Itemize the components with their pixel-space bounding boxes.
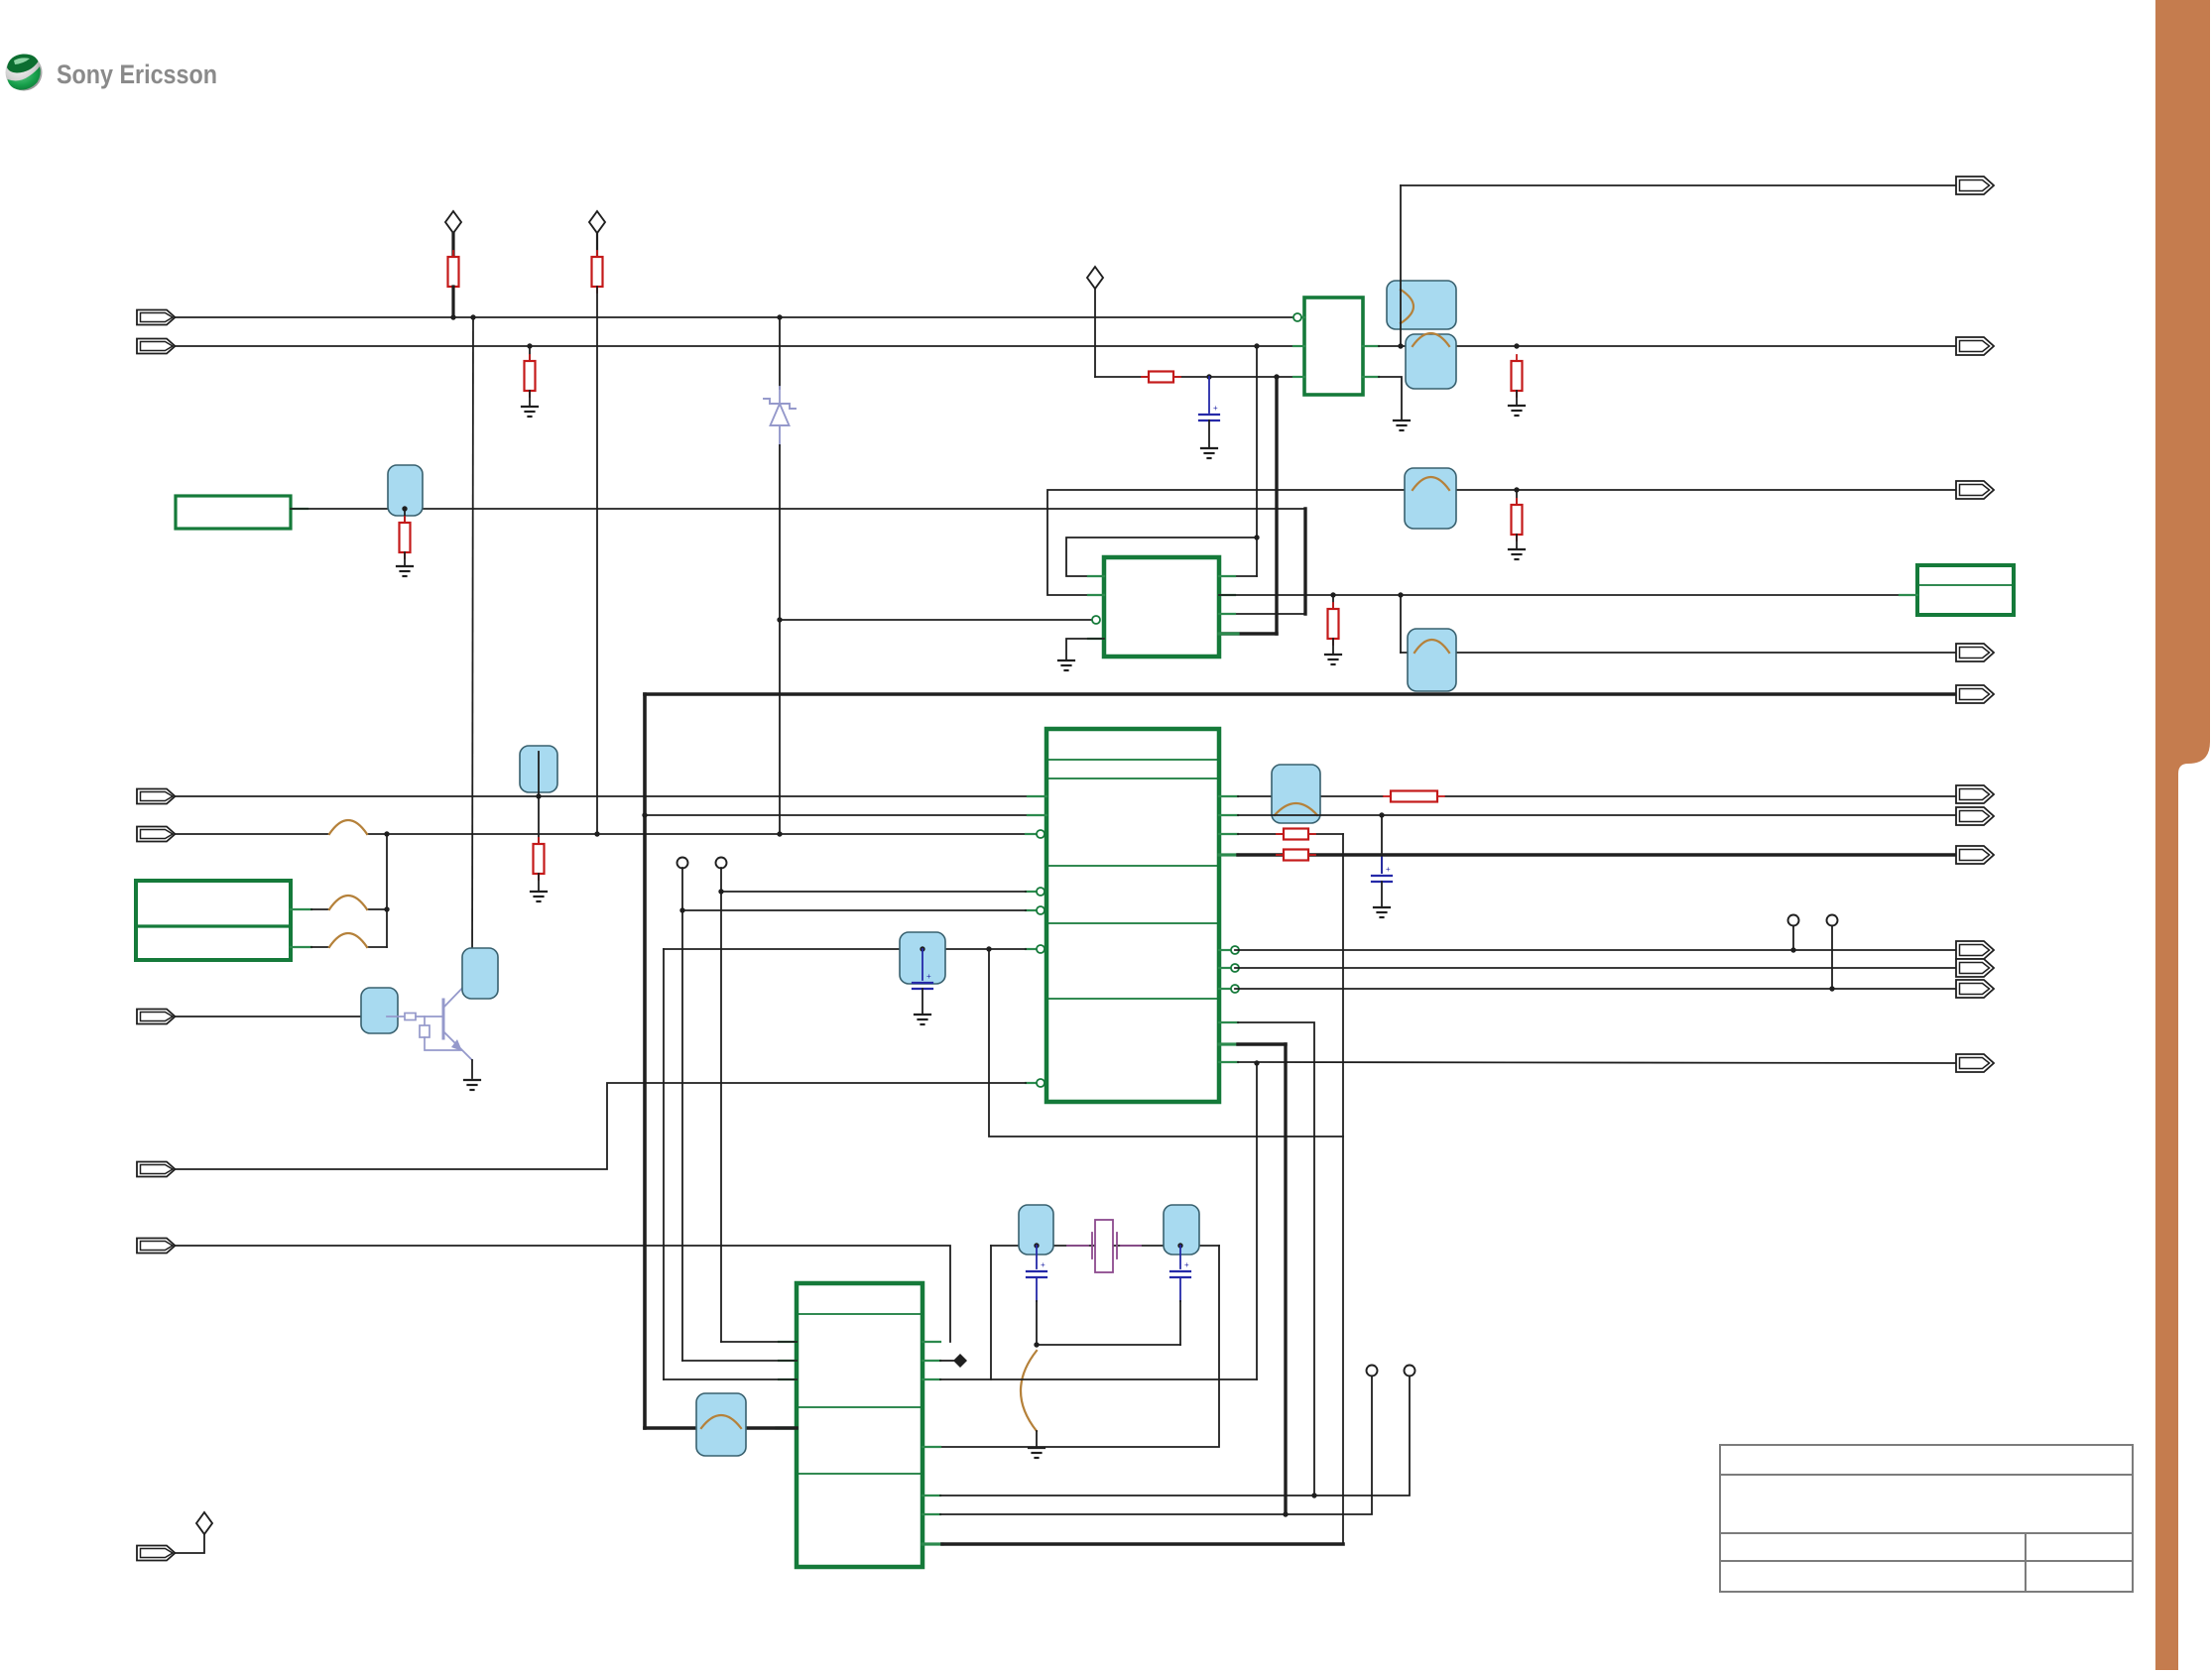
U3 section line d (1046, 922, 1219, 924)
ground C2 (1374, 907, 1390, 917)
node diamond D2 (589, 211, 605, 233)
junction H3 / vertical A (1254, 535, 1259, 539)
U2 left pin stubs (1088, 575, 1104, 577)
no-connect diamond U5.1372 (940, 1360, 953, 1362)
connector arrow IN5 (transistor input) (137, 1010, 176, 1024)
wire to U2 bubble (780, 619, 1092, 621)
wire U3.918 net (682, 909, 1026, 911)
wire cap bottom link (1037, 1344, 1180, 1346)
junction N2 pin1 (384, 906, 389, 911)
wire R9 gnd (538, 874, 540, 892)
test point TP4 (677, 858, 688, 869)
bead FB13 coil arc (701, 1415, 741, 1428)
resistor R14 (series) (1277, 850, 1315, 861)
bead FB3 coil arc (1413, 333, 1449, 346)
U3 right pin stubs (1219, 795, 1238, 797)
bead FB12 (1164, 1205, 1199, 1255)
bead FB4 coil arc (1413, 477, 1449, 490)
wire C3 stem (922, 949, 923, 980)
wire R6 gnd (1516, 391, 1518, 406)
wire U3.1031 out (1238, 1022, 1314, 1496)
resistor R6 (1512, 355, 1523, 397)
wire N2 vertical to W4 (386, 834, 388, 947)
junction 380/thick vertical (1274, 374, 1279, 379)
junction W4/box N2 net (384, 831, 389, 836)
ground U1.380 (1394, 420, 1410, 430)
wire thick rail 700 (645, 692, 1956, 696)
N2 pin1 wire (291, 908, 311, 910)
capacitor C5 (1170, 1271, 1190, 1277)
ground R6 (1509, 406, 1525, 416)
zener diode Z1 cathode lead (779, 317, 781, 389)
wire R4 to ground (404, 552, 406, 566)
wire R4 stem (404, 509, 406, 523)
U3 right bubble pins (1219, 949, 1230, 951)
wire thick vertical (380 to U2 pin thick) (1275, 377, 1278, 634)
wire TP3 stem / vertical 727 (720, 868, 722, 1342)
transistor Q1 collector (443, 978, 472, 1008)
wire U3.841 out (1238, 833, 1284, 835)
junction C4/C5 bottom link (1034, 1342, 1039, 1347)
wire vertical A (W2 to U2 right pin1) (1256, 346, 1258, 576)
junction W4/zener net end (777, 831, 782, 836)
U2 right pin stubs (1219, 575, 1235, 577)
U1 left pin stubs (1293, 345, 1304, 347)
junction W3/FB6 (536, 793, 541, 798)
transistor Q1 base bar (442, 1000, 445, 1038)
wire H3 loop (1066, 538, 1257, 576)
N2 pin2 wire (291, 946, 311, 948)
junction 822/C2 (1379, 812, 1384, 817)
junction W2/R3 (527, 343, 532, 348)
test point TP6 (1367, 1366, 1378, 1376)
junction 899/TP3 stem (718, 889, 723, 894)
zener diode Z1 (764, 399, 796, 445)
connector arrow OUT4 (1956, 644, 1994, 661)
wire R3 stem (529, 346, 531, 361)
wire U3.957 net (663, 949, 665, 1379)
resistor R5 (series) (1142, 372, 1180, 383)
wire test point TP1 stem (1792, 926, 1794, 950)
wire 600 down to 658 (1400, 595, 1402, 653)
wire U3.899 net (721, 891, 1026, 893)
connector arrow OUT2 (1956, 337, 1994, 355)
junction crystal/C4 (1034, 1243, 1039, 1248)
transistor Q1 emitter (443, 1031, 472, 1060)
N1 pin stub (291, 508, 307, 510)
node diamond D3 (1087, 267, 1103, 289)
ground R8 (1325, 655, 1341, 664)
bead FB13 (696, 1393, 746, 1456)
orange side tab (2155, 0, 2210, 1670)
connector arrow IN3 (wire W3) (137, 789, 176, 804)
wire U3.803 out (1238, 795, 1383, 797)
wire R7 stem (1516, 490, 1518, 505)
wire U5 thick 1557 (942, 1542, 1343, 1546)
test point TP3 (716, 858, 727, 869)
wire C2 gnd (1381, 882, 1383, 907)
bead FB2 coil arc (1401, 290, 1413, 323)
wire R8 stem (1332, 595, 1334, 609)
bead FB10 (900, 932, 945, 984)
U3 section line c (1046, 865, 1219, 867)
connector arrow OUT3 (1956, 481, 1994, 499)
wire test point TP2 stem (1831, 926, 1833, 989)
wire C4 stem (1036, 1246, 1038, 1268)
connector arrow IN2 (wire W2) (137, 339, 176, 354)
U1 right pin stubs (1363, 345, 1379, 347)
wire C4 down (1036, 1277, 1038, 1301)
wire C5 down (1179, 1277, 1181, 1301)
wire U3.1092 net (from IN6) (176, 1083, 1026, 1169)
connector arrow OUT10 (1956, 959, 1994, 977)
wire U3.976 out (1235, 967, 1956, 969)
U5 section line a (797, 1313, 922, 1315)
wire C1 stem (1208, 377, 1210, 413)
wire H1 (U2 left pin to OUT3) (1047, 490, 1956, 595)
svg-text:+: + (1041, 1260, 1045, 1269)
junction 957/vertical 997 (986, 946, 991, 951)
bead FB7 (361, 988, 398, 1033)
wire IN5 to bead FB7 (176, 1016, 387, 1017)
junction W2/vertical A (1254, 343, 1259, 348)
wire U3.862 thick out (1238, 853, 1284, 856)
U5 thick left stub (777, 1426, 797, 1429)
wire D3 lead down (1094, 289, 1096, 377)
wire emitter down (471, 1060, 473, 1078)
U5 left pin stubs (779, 1341, 797, 1343)
wire C2 stem (1381, 815, 1383, 873)
wire U3.822 from thick rail (645, 814, 1028, 816)
node diamond D4 (196, 1512, 212, 1534)
connector arrow OUT11 (1956, 980, 1994, 998)
connector arrow OUT5 (thick rail) (1956, 685, 1994, 703)
IC U2 (1104, 557, 1219, 657)
resistor R13 (series) (1277, 829, 1315, 840)
bead FB6 (stub bead) (520, 746, 557, 792)
bead FB3 (1406, 334, 1456, 389)
U3 left pin stubs (1028, 795, 1046, 797)
U3 section line e (1046, 998, 1219, 1000)
junction W4/R2 end (594, 831, 599, 836)
junction 957/C3 (920, 946, 924, 951)
wire W3 (IN3 to U3) (176, 795, 1028, 797)
wire collector vertical (W1 down to Q1) (472, 317, 473, 978)
Sony Ericsson logo ball (6, 54, 43, 90)
svg-text:+: + (926, 972, 931, 981)
wire TP4 stem / vertical 688 (681, 868, 683, 1361)
junction 1072/vertical (1254, 1060, 1259, 1065)
capacitor C2 (1372, 876, 1392, 882)
wire U5 thick pin 1440 (645, 1426, 797, 1430)
wire W2 (IN2 to U1 pin) (176, 345, 1302, 347)
bead FB4 (1405, 468, 1456, 529)
hop arc on W4 (329, 820, 367, 834)
junction thick rail/822 (642, 812, 647, 817)
wire H2 vertical (down to U2 right pin3) (1303, 509, 1306, 614)
ground L1 (1029, 1448, 1045, 1458)
ground C3 (915, 1015, 930, 1024)
wire U2 thick pin link (1219, 632, 1277, 635)
U5 thick right stub (922, 1542, 942, 1545)
ground Q1 emitter (464, 1080, 480, 1090)
wire bead FB6 stem (538, 752, 540, 844)
wire vertical 1296 (1284, 1044, 1287, 1514)
wire R7 gnd (1516, 535, 1518, 549)
hop arc N2 pin1 (329, 896, 367, 909)
capacitor C3 (913, 983, 932, 989)
svg-text:+: + (1184, 1260, 1189, 1269)
resistor R12 (series, long) (1384, 791, 1444, 802)
U3 section line a (1046, 759, 1219, 761)
connector arrow IN8 (bottom, to diamond node) (137, 1546, 176, 1561)
U2 bubble pin (1092, 616, 1100, 624)
label box N2 (136, 881, 291, 960)
bead FB5 (1408, 629, 1456, 691)
resistor R4 (400, 517, 411, 558)
connector arrow IN4 (wire W4) (137, 827, 176, 842)
wire U5 pin 1372 left (682, 1360, 797, 1362)
bead FB2 (on vertical) (1387, 281, 1456, 329)
wire U5 pin 1391 left (664, 1378, 797, 1380)
wire U3.997 out (1235, 988, 1956, 990)
wire C1 to ground (1208, 420, 1210, 448)
hop arc N2 pin2 (329, 933, 367, 947)
connector arrow OUT12 (1956, 1054, 1994, 1072)
wire R2 down to W4 (596, 287, 598, 834)
wire out658 to OUT4 (1401, 652, 1956, 654)
test point TP1 (1788, 915, 1799, 926)
wire vertical 1354 (841 rail down) (1342, 834, 1344, 1544)
U2 thick right stub (1219, 632, 1238, 635)
wire U1.380 to ground (1379, 377, 1402, 420)
label box N1 (176, 496, 291, 529)
IC U1 (1304, 298, 1363, 395)
test point TP2 (1827, 915, 1838, 926)
wire U2 ground pin (1066, 639, 1104, 660)
bead FB9 coil arc (1275, 803, 1317, 815)
resistor R3 (525, 355, 536, 397)
wire C5 stem (1179, 1246, 1181, 1268)
junction 997/test point (1829, 986, 1834, 991)
junction 380/C1 (1206, 374, 1211, 379)
junction 349 / vertical to top (1398, 343, 1403, 348)
wire U2 pin3 link (1219, 613, 1305, 615)
wire Z1 anode down (779, 445, 781, 834)
junction H1/R7 (1514, 487, 1519, 492)
wire U5.1527 right (940, 1376, 1372, 1514)
junction H2/R4 (402, 506, 407, 511)
resistor R2 (592, 251, 603, 293)
ground R7 (1509, 549, 1525, 559)
junction crystal/C5 (1177, 1243, 1182, 1248)
IC U5 (797, 1283, 922, 1567)
U4 pin stub (1900, 594, 1917, 596)
wire U3.1053 thick out (1238, 1042, 1286, 1045)
connector arrow IN1 (wire W1) (137, 310, 176, 325)
bead FB9 (two-wire) (1272, 765, 1320, 823)
IC U4 (1917, 565, 2014, 615)
wire crystal rail left drop (990, 1246, 992, 1379)
wire C3 gnd (922, 989, 923, 1015)
wire U3.822 out (1238, 814, 1956, 816)
wire U1.380 horizontal (1095, 376, 1302, 378)
resistor R10 (base series) (405, 1014, 416, 1020)
wire IN8 to diamond D4 (176, 1534, 204, 1553)
bead FB1 (388, 465, 423, 516)
wire U3.958 out (1235, 949, 1956, 951)
svg-text:+: + (1213, 404, 1218, 413)
wire thick vertical 650 (643, 694, 647, 1428)
wire U1 out 349 (1379, 345, 1956, 347)
U5 section line b (797, 1406, 922, 1408)
wire U5 pin 1353 left (721, 1341, 797, 1343)
wire R3 to ground (529, 391, 531, 407)
U5 right pin stubs (922, 1341, 940, 1343)
resistor R11 (base-emitter) (424, 1017, 426, 1025)
capacitor C1 (1199, 415, 1219, 420)
wire IN7 net to U5 (176, 1246, 950, 1342)
resistor R9 (534, 838, 545, 880)
U5 section line c (797, 1473, 922, 1475)
junction 349/R6 (1514, 343, 1519, 348)
test point TP5 (1405, 1366, 1415, 1376)
wire W4 (IN4 to U3) (176, 833, 329, 835)
wire U2 out600 (to U4) (1219, 594, 1917, 596)
connector arrow OUT8 (thick) (1956, 846, 1994, 864)
ground R3 (522, 407, 538, 417)
junction Z1 net / U2 bubble wire (777, 617, 782, 622)
wire vertical 997a + crystal top link (989, 949, 1343, 1137)
wire R10 to base (416, 1016, 443, 1017)
U3 section line b (1046, 778, 1219, 779)
resistor R8 (1328, 603, 1339, 645)
junction 600/R8 (1330, 592, 1335, 597)
junction W1 / collector vertical (470, 314, 475, 319)
wire diamond D1 lead (451, 233, 454, 257)
junction 958/test point (1790, 947, 1795, 952)
wire U3.1071 out (1238, 1062, 1956, 1063)
wire vertical to top connector (1400, 185, 1402, 346)
connector arrow OUT7 (1956, 807, 1994, 825)
bead FB8 (collector) (462, 948, 498, 999)
connector arrow OUT9 (1956, 941, 1994, 959)
wire H2 (N1 to U2 pin via bead FB1) (291, 508, 1305, 510)
bead FB5 coil arc (1414, 640, 1449, 653)
wire diamond D2 lead (596, 233, 598, 257)
resistor R7 (1512, 499, 1523, 540)
connector arrow OUT1 (1956, 177, 1994, 194)
ground U2 (1058, 660, 1074, 670)
svg-text:+: + (1386, 865, 1391, 874)
wire W1 (IN1 to U1 bubble) (176, 316, 1293, 318)
crystal X1 (1067, 1220, 1141, 1272)
resistor R1 (448, 251, 459, 293)
wire vertical 1267 (1072 to 1391) (1256, 1063, 1258, 1379)
wire U2 right pin1 link (1219, 575, 1257, 577)
junction W1/zener branch (777, 314, 782, 319)
wire top to OUT1 (1401, 184, 1956, 186)
IC U3 (1046, 729, 1219, 1102)
wire crystal rail right drop (922, 1246, 1219, 1447)
svg-text:Sony Ericsson: Sony Ericsson (57, 60, 217, 89)
connector arrow OUT6 (1956, 785, 1994, 803)
wire crystal rail (991, 1245, 1219, 1247)
ground R9 (531, 892, 547, 901)
wire FB7 to R10 (387, 1016, 405, 1017)
junction 1508/1325 (1311, 1493, 1316, 1497)
U3 left bubble pins (1026, 833, 1036, 835)
wire R8 gnd (1332, 639, 1334, 655)
wire U5.1508 right (940, 1376, 1410, 1496)
ground C1 (1201, 448, 1217, 458)
junction 918/TP4 stem (679, 907, 684, 912)
wire U5.1391 right (940, 1378, 1257, 1380)
wire R1 to W1 (451, 287, 454, 317)
inductor L1 (to ground) (1021, 1351, 1037, 1431)
capacitor C4 (1027, 1271, 1046, 1277)
connector arrow IN7 (to U5 pin) (137, 1239, 176, 1254)
node diamond D1 (445, 211, 461, 233)
ground R4 (397, 566, 413, 576)
junction W1/R1 (450, 314, 455, 319)
bead FB11 (1019, 1205, 1053, 1255)
connector arrow IN6 (to U3 pin) (137, 1162, 176, 1177)
junction 1527/1296 (1283, 1511, 1288, 1516)
title block (1720, 1445, 2133, 1592)
junction 600/out658 (1398, 592, 1403, 597)
U1 bubble pin (1293, 313, 1301, 321)
